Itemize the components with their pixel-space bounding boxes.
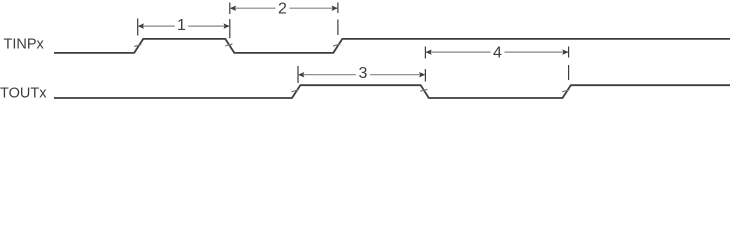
dimension 4 extension bar left (424, 47, 426, 59)
svg-text:2: 2 (278, 0, 287, 17)
dimension 2 extension bar right (337, 3, 339, 14)
dimension 1 extension bar right (229, 19, 231, 38)
edge tick TINPx rising 2 (333, 44, 340, 46)
dimension 3 extension bar right (424, 69, 426, 82)
edge tick TOUTx falling (420, 89, 427, 91)
edge tick TOUTx rising 1 (291, 90, 298, 92)
dimension 4 arrow line left (426, 51, 491, 53)
svg-text:TOUTx: TOUTx (0, 86, 47, 102)
dimension 2 extension bar left (229, 3, 231, 15)
TOUTx waveform (54, 85, 730, 98)
dimension 3 arrow line left (299, 74, 357, 76)
dimension 2 arrow line left (230, 7, 275, 9)
svg-text:TINPx: TINPx (4, 37, 45, 53)
dimension 3 extension bar left (297, 66, 299, 83)
dimension 4 arrow line right (505, 51, 569, 53)
dimension 3 arrow line right (370, 74, 425, 76)
edge tick TOUTx rising 2 (562, 90, 569, 92)
TINPx waveform (54, 39, 730, 53)
dimension 2 arrow line right (290, 7, 338, 9)
dimension 4 extension dash right (568, 65, 570, 80)
edge tick TINPx falling (225, 44, 232, 46)
edge tick TINPx rising 1 (134, 45, 141, 47)
dimension 1 arrow line left (138, 25, 175, 27)
dimension 1 arrow line right (188, 25, 229, 27)
dimension 1 extension bar left (137, 19, 139, 36)
dimension 4 extension bar right (568, 47, 570, 58)
dimension 2 extension dash right (337, 20, 339, 36)
svg-text:3: 3 (359, 65, 368, 82)
svg-text:4: 4 (493, 45, 502, 62)
svg-text:1: 1 (177, 17, 186, 34)
